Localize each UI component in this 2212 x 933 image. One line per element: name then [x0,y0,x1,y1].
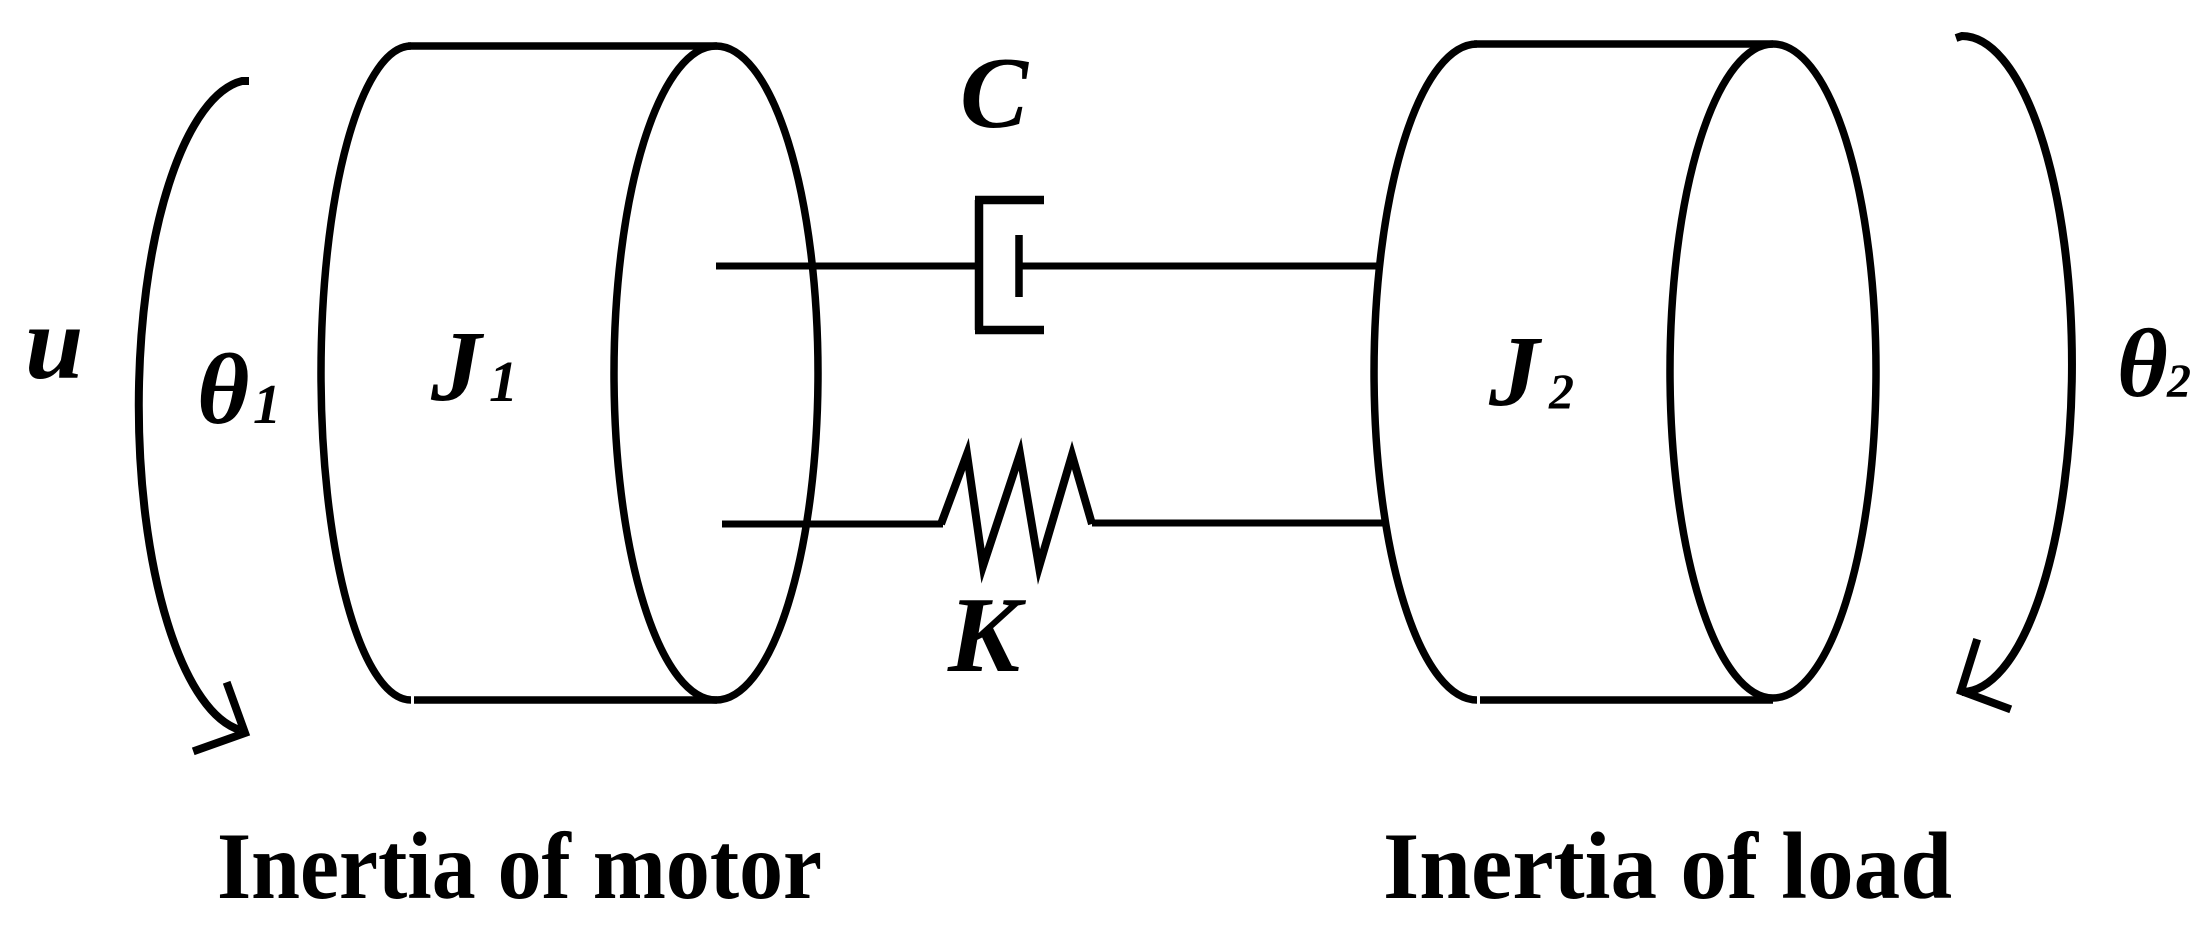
wire: top shaft left segment (motor to damper) [716,263,978,270]
cylinder J2 right face ellipse [1670,44,1876,698]
svg-text:Inertia of motor: Inertia of motor [217,813,822,919]
rotation arrow theta2 arrowhead [1961,643,2007,708]
rotation arrow theta2 (right arc) [1956,36,2072,692]
cylinder J2 top line [1474,40,1773,48]
svg-text:2: 2 [2166,355,2191,408]
cylinder J2 bottom line [1480,696,1773,704]
wire: bottom shaft left segment (motor to spring) [722,521,943,528]
wire: bottom shaft right segment (spring to load) [1092,520,1386,527]
damper C (dashpot cup) [975,200,1044,330]
svg-text:C: C [960,37,1029,150]
cylinder J1 right face ellipse [614,46,818,700]
svg-text:Inertia of load: Inertia of load [1383,813,1952,919]
rotation arrow theta1 arrowhead [197,686,245,750]
cylinder J2 left edge arc [1374,44,1477,700]
svg-text:θ: θ [2117,310,2168,418]
svg-text:θ: θ [197,333,249,445]
svg-text:J: J [430,310,485,422]
rotation arrow theta1 (left arc) [139,81,249,730]
svg-text:K: K [947,576,1027,695]
svg-text:1: 1 [489,349,518,414]
svg-text:J: J [1488,315,1543,427]
cylinder J1 (inertia of motor) body [321,46,818,700]
damper C piston rod [1015,235,1023,297]
spring K zigzag [941,454,1092,567]
svg-text:2: 2 [1548,363,1574,419]
cylinder J2 (inertia of load) body [1374,44,1876,700]
svg-text:u: u [25,284,83,401]
cylinder J1 top line [408,42,717,50]
wire: top shaft right segment (damper piston to load) [1022,263,1381,270]
cylinder J1 bottom line [414,696,717,704]
cylinder J1 left edge arc [321,46,411,700]
svg-text:1: 1 [253,374,281,436]
